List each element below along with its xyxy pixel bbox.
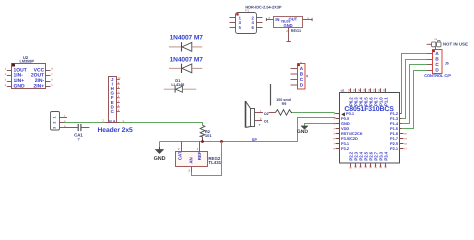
svg-text:P3.4: P3.4 [384, 151, 389, 160]
wire: AN loop [192, 142, 222, 176]
J4 pin stubs [291, 69, 298, 86]
svg-text:1: 1 [260, 109, 262, 113]
svg-text:AN: AN [188, 157, 193, 163]
svg-text:P1: P1 [245, 8, 249, 12]
svg-text:+: + [259, 123, 261, 127]
svg-text:J5: J5 [445, 61, 449, 65]
wire: U1 P1.5 to J5 D [402, 71, 428, 129]
svg-text:OUT: OUT [289, 17, 298, 22]
U2 pin 8 stub [46, 68, 54, 71]
svg-text:2IN+: 2IN+ [33, 84, 44, 90]
mcu U1 C8051F310BCS [340, 88, 400, 163]
J1 pin 1 stub (bottom right) [116, 119, 124, 123]
svg-text:P2.1: P2.1 [390, 146, 399, 151]
svg-text:A: A [113, 119, 116, 123]
J1 pin 2 stub (bottom left) [102, 118, 108, 122]
svg-text:16: 16 [384, 165, 388, 169]
svg-text:REG1: REG1 [291, 29, 301, 33]
U1 bottom pin names (rotated) [349, 151, 389, 160]
diode 1N4007 M7 (upper) [169, 35, 203, 52]
speaker pin 1 [255, 109, 269, 115]
svg-text:12: 12 [364, 165, 368, 169]
svg-text:15: 15 [379, 165, 383, 169]
P1 right pin stubs [257, 18, 263, 28]
svg-text:LL4148: LL4148 [171, 82, 185, 87]
jumper (NOT IN USE) [427, 38, 468, 49]
svg-text:32: 32 [347, 88, 351, 92]
CN1 pin 3 stub [59, 125, 66, 128]
REG1 pin 2 lead (GND) [286, 28, 301, 42]
speaker pin 2 [255, 117, 269, 127]
P1 left pin stubs [230, 18, 236, 28]
U2 pin 2 stub [5, 73, 12, 76]
svg-text:10: 10 [354, 165, 358, 169]
svg-text:REF: REF [197, 151, 202, 160]
svg-text:TL431: TL431 [208, 160, 221, 165]
svg-text:2: 2 [178, 147, 180, 151]
regulator REG1 78L05 [274, 17, 303, 28]
diode D1 LL4148 [164, 78, 196, 92]
svg-text:Header 2x5: Header 2x5 [98, 127, 134, 134]
svg-text:HDR-IDC-2.54-2X3P: HDR-IDC-2.54-2X3P [245, 4, 282, 9]
svg-text:25: 25 [382, 88, 386, 92]
CN1 pin 1 stub [59, 115, 67, 118]
U2 pin 7 stub [46, 73, 54, 76]
U2 pin 3 stub [5, 79, 12, 82]
header J1 2x5 [98, 77, 134, 135]
wire: U1 P1.3 to J5 B [402, 60, 428, 119]
U1 left pin stubs [334, 112, 340, 150]
U1 left pin labels [341, 111, 363, 151]
wire: CN1 pin2 to header 2x5 pin2 [64, 122, 105, 124]
header P1 HDR-IDC-2.54-2X3P [236, 4, 282, 33]
svg-text:2: 2 [53, 122, 57, 124]
isolated line segment [270, 84, 272, 106]
U1 right pin labels [390, 111, 399, 151]
svg-text:NOT IN USE: NOT IN USE [443, 42, 468, 47]
svg-text:29: 29 [362, 88, 366, 92]
wire: J1 pin1 to R2 [120, 123, 203, 126]
capacitor CA1 [64, 124, 89, 142]
U2 pin 5 stub [46, 84, 54, 87]
connector J5 [424, 50, 451, 79]
svg-text:11: 11 [359, 165, 363, 168]
U1 bottom pin stubs and numbers [349, 163, 388, 169]
wire: U1 GND pin to ground [305, 124, 336, 126]
U2 pin 1 stub [5, 68, 12, 71]
svg-text:GND: GND [154, 156, 166, 162]
U1 top pin stubs and numbers [347, 88, 386, 92]
connector CN1 (3-pin) [51, 112, 60, 131]
svg-text:27: 27 [372, 88, 376, 92]
wire: R9 to U1 P0.1 [292, 113, 335, 114]
U2 pin 4 stub [5, 84, 12, 87]
svg-text:O2: O2 [264, 112, 269, 116]
svg-text:P1.1: P1.1 [384, 97, 389, 106]
svg-text:GND: GND [284, 23, 293, 28]
REG1 pin 3 lead [266, 16, 273, 21]
svg-text:SP: SP [252, 138, 258, 142]
ground near U1 [297, 125, 309, 135]
J1 right stubs pins 10..3 [116, 77, 121, 112]
svg-text:GND: GND [297, 129, 309, 135]
wire: U1 P1.4 to J5 C [402, 65, 428, 124]
CN1 pin 2 stub [59, 120, 66, 123]
svg-text:GND: GND [14, 84, 26, 90]
wire SP net (horizontal run and rise to P0.0) [160, 118, 336, 142]
op-amp U2 LM358P [12, 55, 46, 90]
resistor R9 150 smd [269, 98, 293, 115]
wire: U1 P1.2 to J5 A [402, 54, 428, 114]
svg-text:26: 26 [377, 88, 381, 92]
svg-text:2: 2 [260, 117, 262, 121]
svg-text:31: 31 [352, 88, 356, 92]
svg-text:U1: U1 [341, 88, 345, 92]
svg-text:O1: O1 [264, 119, 269, 123]
svg-text:3: 3 [188, 169, 190, 173]
speaker SP [246, 101, 255, 128]
U1 right pin stubs [400, 114, 408, 151]
svg-text:LM358P: LM358P [20, 59, 35, 63]
svg-text:CONTROL C/P: CONTROL C/P [424, 73, 451, 78]
svg-text:1N4007 M7: 1N4007 M7 [170, 35, 204, 42]
diode 1N4007 M7 (lower) [169, 56, 203, 73]
svg-text:1: 1 [53, 116, 57, 118]
regulator REG2 TL431 [176, 142, 222, 173]
junction at R2/REF [201, 140, 204, 143]
svg-text:3: 3 [53, 127, 57, 129]
wire: down to ground (TL431) [159, 142, 161, 147]
U1 top pin names (rotated) [349, 97, 389, 106]
svg-text:28: 28 [367, 88, 371, 92]
svg-text:R9: R9 [282, 102, 287, 106]
svg-text:13: 13 [369, 165, 373, 169]
svg-text:B: B [109, 119, 112, 123]
ground near TL431 [154, 147, 166, 162]
junction at AN loop [220, 140, 223, 143]
REG1 pin 1 lead [303, 16, 312, 21]
svg-text:14: 14 [374, 165, 378, 169]
connector J4 [298, 61, 309, 89]
svg-text:1: 1 [197, 147, 199, 151]
svg-text:30: 30 [357, 88, 361, 92]
U2 pin 6 stub [46, 79, 54, 82]
svg-text:1N4007 M7: 1N4007 M7 [170, 56, 204, 63]
resistor R2 [200, 125, 212, 141]
svg-text:P3.2: P3.2 [341, 146, 350, 151]
J5 pin stubs [427, 54, 432, 71]
svg-text:IN: IN [275, 17, 279, 22]
svg-text:101: 101 [205, 133, 212, 138]
svg-text:CAT: CAT [177, 151, 182, 160]
